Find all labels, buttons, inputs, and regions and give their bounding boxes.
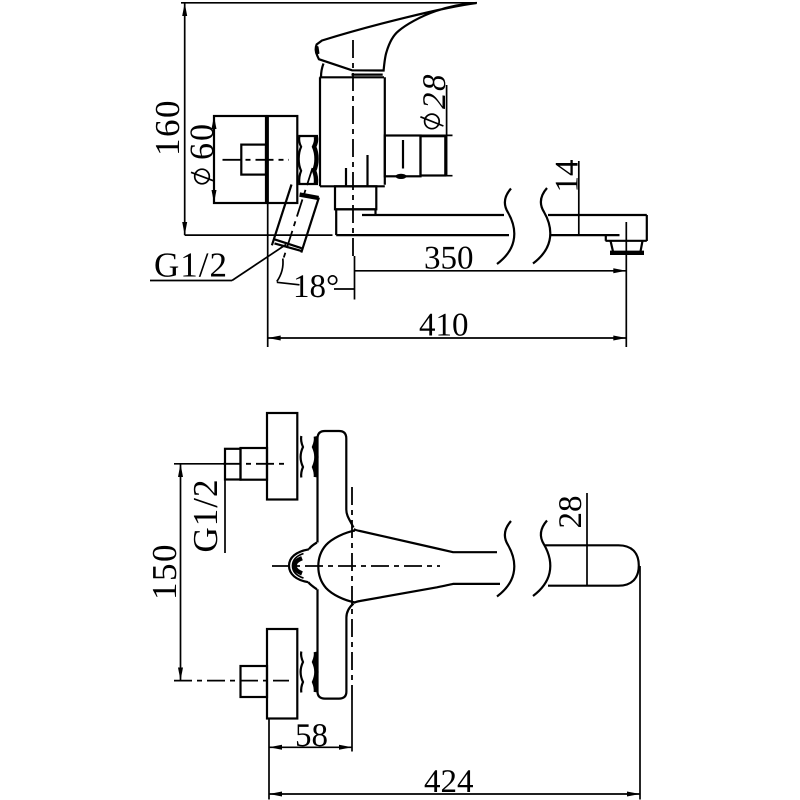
diverter knob neck top — [309, 543, 317, 550]
thread section (wall connector) — [298, 135, 318, 137]
lower nut — [241, 666, 268, 697]
svg-text:18°: 18° — [293, 269, 339, 305]
extension line wall (410) — [267, 204, 269, 348]
wall flange (rear escutcheon) — [214, 116, 266, 203]
spout horizontal centerline — [272, 565, 440, 567]
svg-text:28: 28 — [417, 73, 453, 109]
handle lever — [316, 3, 477, 71]
spout root bottom step — [335, 208, 376, 210]
shower connector thread band — [300, 195, 319, 198]
lower thread wavy 2 — [314, 652, 316, 692]
upper stub — [225, 449, 241, 480]
58 extension right — [351, 700, 353, 752]
svg-text:28: 28 — [553, 496, 589, 529]
right port part 1 — [385, 136, 421, 177]
break mark 3 — [497, 521, 514, 597]
upper thread wavy 1 — [301, 436, 303, 478]
handle cap left curve — [321, 64, 324, 78]
dimension line 410 — [268, 337, 627, 339]
dimension line 150 — [180, 464, 182, 681]
svg-text:60: 60 — [184, 122, 221, 160]
front escutcheon — [268, 116, 298, 203]
spout end cap — [619, 545, 639, 585]
spout taper bottom edge — [354, 584, 500, 603]
diverter knob outer arc — [289, 549, 309, 582]
lower thread wavy 1 — [301, 652, 303, 693]
svg-text:350: 350 — [424, 241, 474, 277]
break mark 2 — [533, 188, 550, 264]
dimension line 160 — [184, 3, 186, 235]
spout end skirt — [605, 235, 607, 241]
right port part 2 — [421, 136, 446, 175]
inlet nut — [241, 145, 266, 175]
right port inner line — [402, 140, 404, 169]
dimension line 14 — [578, 161, 580, 235]
body right edge — [384, 77, 386, 185]
handle cap bottom line — [352, 73, 383, 75]
body bottom edge — [320, 185, 385, 187]
break mark 4 — [533, 521, 550, 597]
spout tube bottom edge — [336, 234, 509, 236]
flange arrows (dia 60) — [212, 116, 217, 129]
body front — [318, 431, 354, 699]
svg-text:424: 424 — [424, 764, 474, 800]
spout tube bottom (after break) — [548, 585, 619, 587]
body centerline — [352, 40, 354, 258]
spout vertical centerline — [351, 487, 353, 700]
spout bell — [318, 531, 355, 603]
G1/2 vertical leader — [224, 449, 226, 553]
18deg horizontal tick — [334, 288, 355, 290]
aerator right edge — [641, 241, 643, 252]
18deg angle arc — [277, 259, 283, 282]
body left edge — [319, 77, 321, 186]
body inner contour left — [345, 168, 347, 186]
svg-text:150: 150 — [145, 543, 184, 600]
extension line bottom (floor line) — [185, 234, 333, 236]
18deg reference extension — [354, 256, 356, 300]
svg-text:G1/2: G1/2 — [154, 246, 228, 285]
aerator left edge — [611, 241, 614, 252]
body top line — [320, 76, 384, 78]
58/424 extension left — [268, 720, 270, 800]
shower connector right edge — [301, 198, 319, 253]
lower escutcheon — [267, 629, 297, 719]
shower connector centerline — [283, 168, 312, 259]
upper inlet centerline — [174, 463, 223, 465]
svg-text:58: 58 — [295, 718, 328, 754]
dia28 dimension line — [446, 85, 448, 177]
svg-text:160: 160 — [148, 99, 187, 156]
svg-text:410: 410 — [419, 308, 469, 344]
spout tube top (after break) — [545, 544, 619, 546]
break mark 1 — [497, 189, 514, 265]
dimension line 350 — [355, 270, 627, 272]
dimension line 424 — [269, 793, 640, 795]
dimension line 58 — [269, 746, 352, 748]
lower inlet centerline — [174, 680, 289, 682]
dia28 extension lines — [417, 134, 453, 136]
G1/2 leader underline — [150, 280, 232, 282]
shower connector (tilted 18deg) left edge — [272, 185, 292, 246]
diverter knob neck bottom — [308, 582, 317, 589]
svg-text:14: 14 — [550, 160, 586, 193]
diverter knob rim arc — [293, 554, 304, 579]
handle nose shadow — [315, 46, 319, 56]
spout root right edge — [374, 210, 376, 215]
upper escutcheon — [267, 413, 297, 500]
aerator bottom band — [610, 251, 644, 255]
spout taper top edge — [354, 529, 497, 552]
spout root left edge — [335, 210, 337, 236]
dimension line 28 — [586, 493, 588, 586]
body inner contour right — [366, 155, 368, 186]
upper nut — [241, 448, 268, 480]
upper thread wavy 2 — [314, 436, 316, 477]
18deg leader to text — [277, 282, 300, 285]
inlet centerline — [223, 159, 290, 161]
spout tube top edge — [362, 214, 504, 216]
spout tip extension line — [625, 222, 627, 347]
spout base nut — [335, 186, 376, 209]
diverter knob inner crescent — [295, 558, 302, 573]
extension line top (to handle tip) — [181, 2, 477, 4]
right port nub — [396, 174, 407, 179]
G1/2 leader diagonal — [232, 245, 286, 281]
svg-text:G1/2: G1/2 — [186, 479, 225, 553]
spout end face — [646, 215, 648, 241]
424 extension right (spout tip) — [639, 566, 641, 800]
shower connector end face — [274, 239, 302, 248]
